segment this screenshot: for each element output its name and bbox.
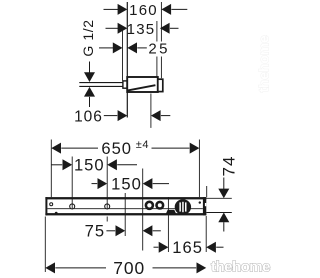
arrowhead 106 right bbox=[151, 110, 161, 121]
soap dish ring 2 bbox=[157, 202, 164, 209]
extension line 160 right upper bbox=[160, 2, 162, 42]
extension line bar end upper stub bbox=[206, 186, 208, 197]
extension line bar right end lower bbox=[205, 216, 207, 252]
arrowhead 165 right bbox=[206, 242, 216, 253]
arrowhead 150b left bbox=[98, 178, 108, 189]
dim tail 150b right bbox=[153, 183, 169, 185]
arrowhead 650 left bbox=[51, 143, 61, 154]
knob grip slit 2 bbox=[182, 202, 184, 212]
dim leader 25 bbox=[137, 47, 147, 49]
svg-text:±4: ±4 bbox=[136, 139, 149, 151]
dim line 700 right part bbox=[153, 267, 197, 269]
soap dish ring 1 bbox=[146, 202, 153, 209]
svg-text:160: 160 bbox=[129, 2, 158, 19]
holder foot trapezoid bbox=[166, 210, 176, 214]
left cap screw ring bbox=[50, 203, 53, 206]
dim tail 135 right bbox=[170, 27, 179, 29]
dim tail 150b left bbox=[92, 183, 98, 185]
svg-text:150: 150 bbox=[74, 156, 105, 175]
arrowhead 74 down bbox=[218, 189, 229, 199]
arrowhead 75 right bbox=[143, 225, 153, 236]
arrowhead G1/2 down bbox=[84, 72, 95, 82]
mounting hole 1 bbox=[70, 204, 75, 209]
extension line 650 left bbox=[50, 140, 52, 198]
bar slider slot line bbox=[47, 208, 203, 210]
centerline outlet (75 dim) bbox=[124, 193, 126, 236]
arrowhead 160 right bbox=[161, 4, 171, 15]
extension line bar top for 74 bbox=[206, 197, 232, 199]
dim line 650 right part bbox=[152, 147, 190, 149]
svg-text:150: 150 bbox=[111, 174, 142, 193]
arrowhead 700 right bbox=[197, 262, 207, 273]
wall bar right end cap bbox=[203, 197, 206, 215]
dim line G1/2 upper bbox=[89, 62, 91, 74]
arrowhead 160 left bbox=[118, 4, 128, 15]
extension line pipe end (25 left) bbox=[122, 28, 124, 81]
knob grip slit 3 bbox=[185, 202, 187, 211]
arrowhead 75 left bbox=[116, 225, 126, 236]
wall bar top edge bbox=[45, 197, 206, 199]
svg-text:25: 25 bbox=[148, 40, 170, 57]
svg-text:135: 135 bbox=[127, 21, 156, 38]
dim line 700 left part bbox=[55, 267, 106, 269]
arrowhead 25 left bbox=[113, 42, 123, 53]
svg-text:165: 165 bbox=[172, 238, 203, 257]
dim line G1/2 lower bbox=[89, 97, 91, 107]
dim tail 75 right bbox=[153, 230, 161, 232]
arrowhead 150a right bbox=[107, 159, 117, 170]
left cap pin dot bbox=[55, 212, 58, 215]
wall bar white body bbox=[45, 197, 206, 215]
svg-text:74: 74 bbox=[220, 156, 239, 177]
wall support flange bbox=[158, 79, 163, 91]
svg-text:75: 75 bbox=[85, 222, 105, 241]
extension line 650 right bbox=[198, 140, 200, 198]
dim tail 150a right bbox=[117, 164, 137, 166]
svg-text:650: 650 bbox=[101, 139, 132, 158]
extension line hole 1 bbox=[71, 157, 73, 210]
arrowhead 106 left bbox=[118, 110, 128, 121]
wall reference extension line bbox=[126, 2, 128, 118]
dim tail 160 right bbox=[171, 8, 187, 10]
extension line below support (106 right) bbox=[150, 94, 152, 128]
dim tail 135 left bbox=[106, 27, 119, 29]
extension line 160 right lower bbox=[160, 57, 162, 79]
svg-text:G 1/2: G 1/2 bbox=[80, 19, 96, 56]
extension line hole 2 bbox=[106, 157, 108, 210]
dim tail 160 left bbox=[104, 8, 119, 10]
dim leader 106 left bbox=[104, 115, 118, 117]
extension line hole 2 lower stub bbox=[106, 217, 108, 222]
svg-text:thehome: thehome bbox=[211, 259, 270, 276]
wall bar bottom edge bbox=[45, 213, 206, 215]
arrowhead 74 up bbox=[218, 213, 229, 223]
wall bar left end cap bbox=[45, 197, 47, 215]
extension line 700 left bbox=[44, 217, 46, 273]
dim tail 165 left bbox=[154, 246, 159, 248]
extension line 135 right lower bbox=[156, 57, 158, 79]
arrowhead 650 right bbox=[190, 143, 200, 154]
slider grip knob bbox=[175, 199, 191, 214]
mounting hole 2 bbox=[105, 204, 110, 209]
arrowhead 165 left bbox=[159, 242, 169, 253]
svg-text:700: 700 bbox=[113, 258, 145, 278]
centerline holder (150b/75 dim) bbox=[142, 169, 144, 251]
dim tail 25 left bbox=[99, 47, 113, 49]
arrowhead 150b right bbox=[143, 178, 153, 189]
dim line 74 upper bbox=[223, 178, 225, 190]
extension line bar bottom for 74 bbox=[206, 212, 232, 214]
arrowhead G1/2 up bbox=[84, 87, 95, 97]
dim line 650 left part bbox=[61, 147, 98, 149]
dim tail 106 right bbox=[161, 115, 170, 117]
pipe upper line bbox=[79, 82, 123, 84]
wall support connector nub bbox=[123, 81, 128, 88]
svg-text:thehome: thehome bbox=[257, 35, 273, 92]
pipe lower line bbox=[79, 85, 123, 87]
right cap screw dot bbox=[199, 201, 201, 203]
dim tail 150a left bbox=[51, 164, 62, 166]
wall support body bbox=[127, 77, 158, 92]
centerline 165 left bbox=[167, 197, 169, 252]
dim tail 165 right bbox=[216, 246, 223, 248]
wall support diagonal wedge bbox=[128, 85, 156, 90]
right cap notch bbox=[205, 203, 206, 206]
arrowhead 150a left bbox=[63, 159, 73, 170]
arrowhead 135 right bbox=[160, 23, 170, 34]
arrowhead 135 left bbox=[118, 23, 128, 34]
knob grip slit 1 bbox=[179, 202, 181, 211]
svg-text:106: 106 bbox=[74, 108, 103, 125]
arrowhead 25 right bbox=[127, 42, 137, 53]
extension line 135 right upper bbox=[156, 21, 158, 42]
dim leader 75 bbox=[106, 230, 115, 232]
dim line 74 lower bbox=[223, 222, 225, 231]
arrowhead 700 left bbox=[45, 262, 55, 273]
